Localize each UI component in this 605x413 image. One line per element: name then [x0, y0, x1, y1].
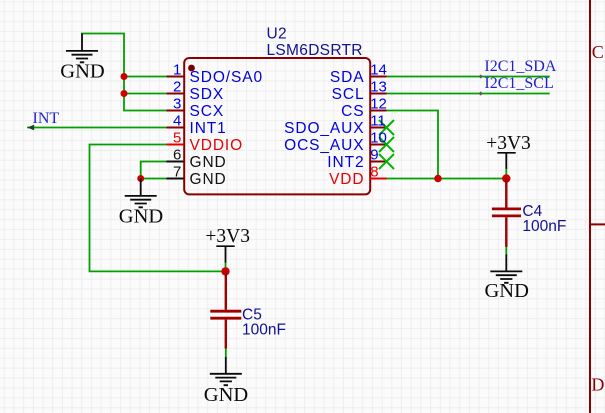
svg-text:5: 5: [173, 130, 181, 147]
svg-text:INT: INT: [33, 110, 60, 127]
svg-text:100nF: 100nF: [522, 218, 566, 235]
svg-text:I2C1_SDA: I2C1_SDA: [484, 58, 556, 75]
svg-text:2: 2: [173, 79, 181, 96]
svg-text:14: 14: [370, 62, 387, 79]
svg-text:13: 13: [370, 79, 387, 96]
svg-text:D: D: [591, 375, 604, 395]
svg-text:INT2: INT2: [327, 154, 364, 171]
svg-text:GND: GND: [190, 154, 227, 171]
svg-text:INT1: INT1: [190, 120, 227, 137]
svg-text:C: C: [592, 42, 604, 62]
svg-text:SDO/SA0: SDO/SA0: [190, 69, 264, 86]
svg-text:SDO_AUX: SDO_AUX: [284, 120, 364, 137]
svg-text:VDD: VDD: [329, 171, 364, 188]
svg-text:CS: CS: [341, 103, 364, 120]
svg-text:SCL: SCL: [332, 86, 365, 103]
svg-text:10: 10: [370, 130, 387, 147]
svg-text:SCX: SCX: [190, 103, 225, 120]
svg-text:9: 9: [370, 147, 378, 164]
svg-text:SDA: SDA: [330, 69, 365, 86]
svg-text:8: 8: [370, 164, 378, 181]
svg-text:OCS_AUX: OCS_AUX: [284, 137, 364, 154]
svg-text:U2: U2: [267, 26, 287, 43]
svg-text:GND: GND: [204, 384, 248, 406]
svg-text:11: 11: [370, 113, 386, 130]
svg-text:GND: GND: [190, 171, 227, 188]
svg-text:GND: GND: [60, 61, 104, 83]
svg-text:GND: GND: [119, 206, 163, 228]
svg-text:LSM6DSRTR: LSM6DSRTR: [267, 42, 363, 59]
svg-text:6: 6: [173, 147, 181, 164]
svg-text:4: 4: [173, 113, 181, 130]
svg-text:12: 12: [370, 96, 387, 113]
svg-text:I2C1_SCL: I2C1_SCL: [484, 75, 553, 92]
svg-text:+3V3: +3V3: [205, 226, 250, 247]
svg-text:SDX: SDX: [190, 86, 225, 103]
svg-text:100nF: 100nF: [242, 321, 286, 338]
svg-text:+3V3: +3V3: [486, 133, 531, 154]
svg-text:1: 1: [173, 62, 181, 79]
svg-text:VDDIO: VDDIO: [190, 137, 244, 154]
svg-text:3: 3: [173, 96, 181, 113]
svg-text:7: 7: [173, 164, 181, 181]
svg-text:GND: GND: [484, 280, 528, 302]
